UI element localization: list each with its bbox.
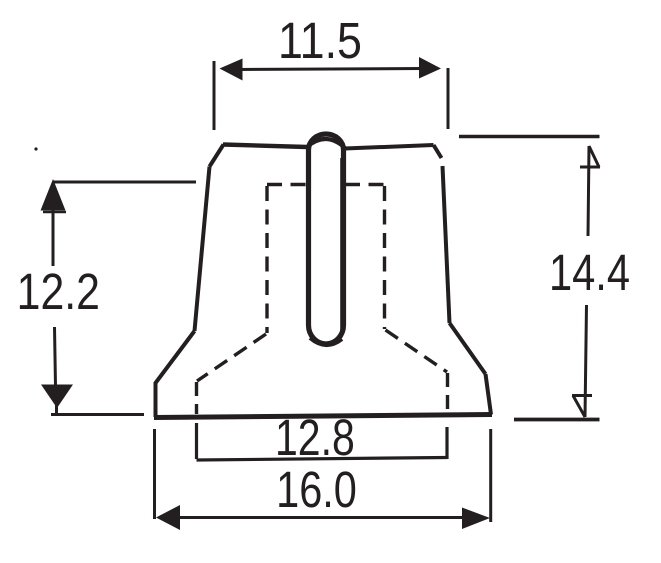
dimension 16.0: dimension line [175, 516, 465, 519]
knob body outline: left skirt flare [156, 331, 195, 383]
knob body outline: right vertical rim [486, 374, 492, 415]
knob body outline: bottom edge [154, 415, 492, 418]
inner dashed profile: right vertical [383, 186, 386, 329]
dimension 12.2: bottom arrowhead [41, 385, 73, 409]
dimension 16.0: right witness line [489, 429, 492, 522]
knob body outline: left tapered side [195, 167, 210, 332]
dimension 14.4: bottom witness line [514, 418, 600, 422]
dimension 11.5: left witness line [213, 61, 216, 130]
inner dashed profile: left vertical [265, 186, 268, 333]
inner dashed profile: top dashed line right of slot [345, 183, 385, 186]
knob body outline: top-left chamfer [210, 145, 224, 167]
dimension 14.4: bottom open arrowhead [572, 396, 592, 418]
dimension 12.2: top arrowhead [41, 179, 66, 211]
dimension 12.2: top arrowhead crossbar [43, 211, 66, 214]
dimension 12.2: top witness line [53, 181, 196, 184]
dimension 12.2: lower shaft [55, 327, 56, 386]
dimension 11.5: left arrowhead [220, 59, 243, 81]
knob body outline: top-right chamfer [434, 145, 442, 158]
dimension 12.2: upper shaft [52, 208, 55, 266]
dimension 14.4: top open arrowhead [580, 146, 600, 167]
dimension 16.0: left witness line [153, 429, 156, 519]
knob slot top arc thickening [307, 139, 345, 148]
knob slot (stadium) [309, 134, 344, 344]
inner dashed profile: right lower vertical [446, 373, 449, 414]
svg-text:12.8: 12.8 [275, 409, 355, 466]
svg-text:14.4: 14.4 [549, 244, 630, 301]
dimension 12.2: bottom arrow stub [55, 400, 58, 415]
knob body outline: right tapered side [443, 166, 450, 323]
dimension 14.4: top witness line [459, 135, 600, 139]
stray dot artifact [34, 147, 37, 150]
dimension 11.5: right witness line [447, 68, 450, 129]
knob body outline: top edge left segment [223, 145, 307, 148]
dimension 16.0: left arrowhead [156, 505, 180, 530]
12.8 bracket: right vertical below bottom edge [445, 427, 448, 459]
dimension 11.5: right arrowhead [419, 57, 441, 79]
knob slot bottom arc thickening [310, 338, 342, 345]
12.8 bracket: horizontal line [197, 458, 448, 461]
svg-text:12.2: 12.2 [17, 262, 100, 319]
dimension 14.4: upper shaft [588, 146, 589, 236]
svg-text:11.5: 11.5 [278, 13, 362, 69]
svg-text:16.0: 16.0 [276, 461, 357, 518]
inner dashed profile: top dashed line left of slot [267, 183, 306, 186]
12.8 bracket: left vertical below bottom edge [195, 423, 198, 459]
dimension 14.4: lower shaft [585, 305, 587, 417]
knob body outline: top edge right segment [345, 145, 434, 149]
inner dashed profile: left slant [197, 334, 266, 381]
dimension 12.2: bottom witness line [51, 413, 144, 416]
knob slot right edge thickening [340, 158, 343, 330]
dimension 11.5: dimension line [238, 69, 424, 70]
knob body outline: left vertical rim [154, 382, 158, 417]
dimension 16.0: right arrowhead [462, 508, 490, 530]
knob body outline: right skirt flare [450, 323, 486, 374]
inner dashed profile: right slant [386, 330, 448, 372]
inner dashed profile: left lower vertical [195, 382, 198, 414]
